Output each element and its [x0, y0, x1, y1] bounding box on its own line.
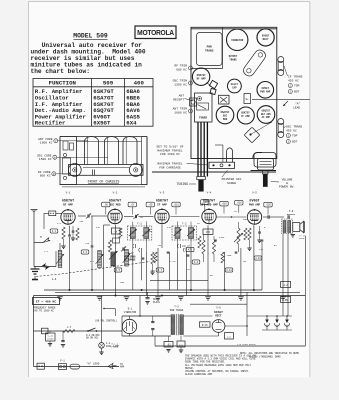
- ground lug box (top view): [244, 94, 251, 104]
- coupling caps near V4: [267, 215, 269, 218]
- capacitor: [68, 234, 71, 236]
- svg-text:.02: .02: [186, 268, 191, 271]
- osc coil L-3: [125, 250, 129, 267]
- chassis lip line (front view): [77, 141, 142, 143]
- svg-text:BOT: BOT: [294, 91, 300, 94]
- svg-text:1600 KC: 1600 KC: [174, 111, 187, 114]
- wire: [91, 216, 93, 246]
- filter electrolytic C-24C: [286, 316, 288, 320]
- tube complement table: [33, 79, 153, 127]
- oscillator grid box: [112, 228, 121, 234]
- ground bus: [34, 295, 306, 297]
- IF frequency note box: [33, 298, 60, 305]
- grid trimmer C-2: [87, 214, 89, 217]
- capacitor C-7 label box: [128, 202, 136, 207]
- svg-text:TOP: TOP: [292, 135, 298, 138]
- svg-text:6X4: 6X4: [126, 120, 137, 127]
- svg-text:PWR AMP: PWR AMP: [260, 90, 271, 93]
- capacitor: [235, 251, 238, 253]
- wire: [91, 248, 93, 290]
- svg-text:R-2: R-2: [90, 260, 95, 263]
- ground: [178, 297, 184, 300]
- on-off switch wire: [34, 330, 123, 332]
- wire: [115, 225, 117, 296]
- wire ant box to V1 grid: [44, 212, 49, 214]
- det audio tube 6SQ7GT (top view): [257, 106, 275, 124]
- primary top wire: [122, 315, 171, 317]
- wire: [185, 252, 187, 296]
- oscillator cathode box: [113, 238, 120, 243]
- antenna connector arrow: [43, 238, 50, 243]
- svg-text:.020: .020: [265, 204, 271, 207]
- svg-text:47K: 47K: [167, 226, 172, 229]
- pointer spring: [227, 148, 233, 162]
- resistor: [244, 228, 247, 240]
- resistor: [108, 240, 111, 252]
- front chassis outline: [60, 136, 147, 138]
- antenna coil form: [85, 137, 99, 165]
- capacitor: [261, 239, 264, 241]
- svg-text:AF AMP: AF AMP: [262, 116, 271, 119]
- svg-text:.05: .05: [79, 220, 84, 223]
- svg-text:TUNING: TUNING: [177, 182, 189, 186]
- ground: [238, 297, 244, 300]
- svg-text:CAP: CAP: [232, 87, 237, 90]
- junction: [224, 289, 226, 291]
- svg-text:2.2: 2.2: [283, 284, 288, 287]
- capacitor C-9 label box: [146, 202, 154, 207]
- svg-text:FRONT OF CHASSIS: FRONT OF CHASSIS: [88, 180, 120, 184]
- svg-text:455 KC: 455 KC: [286, 129, 297, 132]
- svg-text:.018: .018: [236, 202, 242, 205]
- resistor: [198, 236, 201, 248]
- antenna coil L-1: [58, 251, 62, 268]
- svg-text:T-1: T-1: [137, 223, 142, 226]
- svg-text:.09: .09: [148, 203, 153, 206]
- svg-text:IF AMP: IF AMP: [157, 204, 167, 207]
- rf coil form: [123, 137, 137, 165]
- buffer caps: [151, 321, 154, 323]
- capacitor: [214, 239, 217, 241]
- antenna receptacle (top view): [190, 98, 197, 106]
- svg-text:4.3: 4.3: [83, 251, 88, 254]
- svg-text:PWR AMP: PWR AMP: [249, 204, 261, 207]
- junction: [141, 289, 143, 291]
- svg-text:PLATE: PLATE: [153, 301, 161, 304]
- filter electrolytic C-24B: [276, 316, 278, 320]
- V5 cathode resistor: [248, 228, 251, 240]
- wire: [207, 225, 209, 295]
- antenna jack M-1: [33, 243, 35, 267]
- svg-text:OSC CORE: OSC CORE: [37, 154, 52, 157]
- svg-text:IF AMP: IF AMP: [241, 115, 250, 118]
- svg-text:IF = 455 KC: IF = 455 KC: [36, 300, 57, 304]
- RF amp tube 6SK7GT (top view): [192, 68, 209, 85]
- resistor R-5 label: [114, 268, 122, 272]
- speaker: [293, 223, 300, 232]
- B+ feed wire: [55, 291, 300, 293]
- bottom return bus: [155, 345, 305, 347]
- svg-text:R-15: R-15: [202, 324, 208, 327]
- svg-text:AVC: AVC: [151, 269, 156, 272]
- capacitor: [142, 257, 145, 259]
- svg-text:F-1: F-1: [60, 359, 65, 362]
- svg-text:470K: 470K: [219, 236, 225, 239]
- junction: [253, 289, 255, 291]
- ground: [155, 297, 161, 300]
- volume control wires: [282, 234, 284, 317]
- dial lamp I-1: [101, 296, 103, 343]
- svg-text:600 KC: 600 KC: [176, 68, 187, 71]
- svg-text:4.1: 4.1: [52, 230, 57, 233]
- svg-text:6X5GT: 6X5GT: [93, 120, 111, 127]
- svg-text:C-1: C-1: [57, 222, 62, 225]
- svg-text:.07: .07: [130, 203, 135, 206]
- antenna ground: [34, 267, 36, 270]
- svg-text:VOLUME: VOLUME: [282, 179, 293, 182]
- svg-text:PWR: PWR: [207, 46, 212, 49]
- filter electrolytic C-24A: [266, 316, 268, 320]
- svg-text:C21: C21: [227, 335, 232, 338]
- svg-text:2.2M: 2.2M: [170, 260, 176, 263]
- oscillator coil form: [105, 137, 119, 165]
- battery plug: [108, 363, 117, 368]
- suppressor box on switch line: [42, 328, 49, 334]
- cap C-21 under rectifier: [225, 333, 234, 339]
- osc transformer can (right edge of chassis): [278, 119, 284, 125]
- junction: [190, 289, 192, 291]
- antenna: [33, 210, 35, 214]
- A lead exit: [252, 99, 310, 101]
- padder caps under T-2: [177, 244, 180, 248]
- page frame border: [28, 2, 30, 378]
- oscillator coil L-3 feedback: [111, 252, 115, 266]
- ground: [280, 297, 286, 300]
- svg-text:ALL VOLTAGES MEASURED WITH 100: ALL VOLTAGES MEASURED WITH 1000 OHM PER …: [185, 364, 252, 367]
- front chassis left plate: [60, 137, 77, 185]
- svg-text:RF TRIM: RF TRIM: [174, 65, 187, 68]
- svg-text:RF AMP: RF AMP: [197, 77, 207, 80]
- tuning core arrow: [96, 254, 104, 264]
- ammeter connector: [37, 363, 45, 369]
- wire: [240, 248, 242, 296]
- electrolytic cap (top view): [228, 79, 242, 93]
- svg-text:POINTER ADJ: POINTER ADJ: [222, 178, 242, 181]
- svg-text:.05: .05: [157, 244, 162, 247]
- Motorola logo: [135, 26, 176, 39]
- detector diode parts under V4: [203, 229, 213, 235]
- tuning core arrow: [56, 254, 64, 264]
- svg-text:MOD: MOD: [223, 118, 228, 121]
- V5 cathode bypass: [258, 231, 261, 233]
- wire: [190, 252, 192, 290]
- svg-text:.01: .01: [166, 344, 171, 347]
- svg-text:VIBRATOR: VIBRATOR: [124, 311, 137, 314]
- wire: [132, 252, 134, 290]
- power amp tube 6V6GT (top view): [257, 82, 274, 99]
- tuner unit (top view): [195, 93, 213, 122]
- oscillator tube 6SA7GT (top view): [216, 106, 234, 124]
- spark plate C-25: [49, 331, 51, 333]
- resistor R-3 label: [81, 250, 89, 254]
- svg-text:“A”: “A”: [295, 102, 301, 106]
- wire: [141, 252, 143, 280]
- svg-text:250: 250: [120, 281, 125, 284]
- svg-text:RECT: RECT: [215, 315, 222, 318]
- resistor: [119, 228, 122, 238]
- svg-text:RF CORE: RF CORE: [38, 171, 51, 174]
- svg-text:100: 100: [148, 230, 153, 233]
- svg-text:SPARK: SPARK: [47, 337, 54, 340]
- svg-text:220: 220: [85, 242, 90, 245]
- svg-text:.01: .01: [233, 210, 238, 213]
- svg-text:.011: .011: [173, 203, 179, 206]
- volume-power switch shaft: [253, 153, 262, 159]
- svg-text:MAXIMUM TRAVEL: MAXIMUM TRAVEL: [157, 163, 182, 166]
- junction: [161, 294, 163, 296]
- svg-text:.016: .016: [221, 203, 227, 206]
- svg-text:270: 270: [259, 248, 264, 251]
- spark plate capacitor: [146, 297, 150, 299]
- svg-text:22K: 22K: [107, 245, 112, 248]
- junction: [114, 294, 116, 296]
- vibrator (top view): [227, 29, 248, 50]
- filter choke wire: [247, 315, 292, 317]
- IF amp tube 6SK7GT (top view): [237, 107, 254, 124]
- padder caps under T-1: [132, 244, 135, 248]
- coupling wire V4-V5: [217, 216, 247, 218]
- svg-text:OSC TRANS: OSC TRANS: [286, 126, 302, 129]
- chassis top view outline: [191, 27, 277, 158]
- ground: [57, 297, 63, 300]
- resistor: [154, 252, 157, 263]
- svg-text:V-5: V-5: [252, 191, 257, 194]
- svg-text:&: &: [286, 182, 288, 185]
- capacitor C-11 label box: [172, 202, 180, 207]
- svg-text:the chart below:: the chart below:: [31, 68, 90, 75]
- svg-text:ANT: ANT: [179, 95, 185, 98]
- svg-text:400: 400: [134, 80, 145, 87]
- svg-text:L-1: L-1: [52, 278, 57, 281]
- svg-text:ANT CORE: ANT CORE: [38, 138, 53, 141]
- svg-text:SW ON VOL: SW ON VOL: [86, 337, 99, 340]
- svg-text:MAXIMUM TRAVEL: MAXIMUM TRAVEL: [157, 149, 182, 152]
- wire: [69, 237, 71, 290]
- wire: [145, 252, 147, 296]
- svg-text:LEAD: LEAD: [293, 106, 300, 109]
- dial cable bundle: [197, 122, 199, 177]
- osc section wire: [103, 225, 105, 290]
- svg-text:OUTPUT: OUTPUT: [287, 213, 296, 216]
- tuning shaft: [197, 177, 206, 180]
- junction: [91, 289, 93, 291]
- AVC bus (dashed): [36, 262, 150, 277]
- resistor: [76, 228, 79, 240]
- output transformer (top view): [242, 48, 268, 78]
- svg-text:.05: .05: [283, 299, 288, 302]
- capacitor C-14 label box: [201, 200, 209, 205]
- svg-text:K=1000 (THOUSAND) OHMS: K=1000 (THOUSAND) OHMS: [249, 355, 281, 358]
- svg-text:600 KC: 600 KC: [40, 175, 51, 178]
- svg-text:.005: .005: [226, 254, 232, 257]
- svg-text:4.7: 4.7: [158, 269, 163, 272]
- svg-text:C15: C15: [206, 231, 211, 234]
- svg-text:ANT TRIM: ANT TRIM: [173, 108, 188, 111]
- svg-text:RECT: RECT: [263, 38, 270, 41]
- svg-text:PWR TRANS: PWR TRANS: [170, 309, 184, 312]
- svg-text:.5M: .5M: [242, 260, 247, 263]
- svg-text:V-2: V-2: [113, 191, 118, 194]
- vibrator feed jog: [104, 308, 115, 310]
- svg-text:V-3: V-3: [160, 191, 165, 194]
- fuse holder: [70, 364, 80, 369]
- svg-text:TRANS: TRANS: [229, 58, 237, 61]
- svg-text:OSC MOD: OSC MOD: [109, 204, 121, 207]
- wire: [161, 225, 163, 248]
- svg-text:“A” LEAD: “A” LEAD: [87, 362, 100, 366]
- wire: [253, 225, 255, 290]
- antenna lead-in wire: [33, 214, 35, 243]
- oscillator padder trimmer: [122, 247, 124, 250]
- socket box (top view): [219, 95, 230, 104]
- svg-text:.05: .05: [104, 203, 109, 206]
- volume control R-14: [281, 282, 291, 288]
- svg-text:FOR 1500 KC: FOR 1500 KC: [160, 153, 180, 156]
- heater feed to primary: [139, 296, 141, 317]
- bypass cap 3: [61, 340, 64, 342]
- power transformer (top view): [197, 33, 223, 66]
- svg-text:.01: .01: [139, 216, 144, 219]
- svg-text:4.13: 4.13: [255, 257, 261, 260]
- wire: [261, 242, 263, 290]
- svg-text:V-6: V-6: [216, 307, 221, 310]
- svg-text:KC RANGE: KC RANGE: [124, 259, 136, 262]
- svg-text:ALIGN CARRIAGE ARM.: ALIGN CARRIAGE ARM.: [185, 373, 214, 376]
- secondary wires: [183, 315, 212, 317]
- capacitor C-5 label box: [102, 202, 110, 207]
- center tap dropper: [180, 336, 182, 342]
- svg-text:Rectifier: Rectifier: [35, 120, 66, 127]
- junction: [68, 289, 70, 291]
- svg-text:G+: G+: [246, 98, 250, 101]
- screen feed wire: [190, 303, 247, 305]
- resistor R-7 label: [156, 268, 164, 272]
- ground: [205, 297, 211, 300]
- wire: [224, 252, 226, 290]
- IF transformer T-2: [172, 226, 197, 240]
- svg-text:SET TO 9/16″ OF: SET TO 9/16″ OF: [156, 145, 183, 149]
- capacitor: [167, 251, 170, 253]
- svg-text:POWER SW.: POWER SW.: [279, 186, 295, 189]
- A lead line: [34, 366, 120, 368]
- coupling wire V3-V4: [171, 216, 200, 218]
- capacitor: [187, 254, 190, 256]
- svg-text:10M: 10M: [243, 218, 248, 221]
- tuning core arrow: [123, 253, 131, 263]
- resistor R-11 label: [225, 268, 233, 272]
- svg-text:(ON VOL CONTROL): (ON VOL CONTROL): [95, 320, 117, 323]
- svg-text:540 TO 1600 KC: 540 TO 1600 KC: [33, 309, 55, 312]
- buffer capacitor C-23: [164, 342, 173, 348]
- svg-text:L-5 SPKR FIELD: L-5 SPKR FIELD: [237, 343, 256, 346]
- svg-text:L-7: L-7: [67, 326, 72, 329]
- svg-text:.014: .014: [202, 201, 208, 204]
- B+ bus: [44, 289, 262, 291]
- svg-text:OSC TRIM: OSC TRIM: [173, 80, 188, 83]
- rectifier tube 6X5GT (top view): [257, 29, 274, 46]
- svg-text:V-1: V-1: [66, 191, 71, 194]
- capacitor C-16 label box: [220, 201, 228, 206]
- svg-text:VIBRATOR: VIBRATOR: [231, 39, 244, 42]
- svg-text:L-1: L-1: [44, 250, 49, 253]
- svg-text:TUNER: TUNER: [199, 117, 207, 120]
- B+ takeoff: [225, 325, 247, 327]
- wire: [177, 252, 179, 290]
- svg-text:T-2: T-2: [182, 223, 187, 226]
- svg-text:BOT: BOT: [292, 141, 298, 144]
- svg-text:4.11: 4.11: [226, 269, 232, 272]
- svg-text:SPKR: SPKR: [299, 237, 305, 240]
- IF transformer can (right edge of chassis): [278, 57, 284, 63]
- svg-text:AMM: AMM: [120, 366, 125, 369]
- V1 cathode network: [62, 227, 65, 239]
- svg-text:RF AMP: RF AMP: [63, 204, 73, 207]
- svg-text:MODEL 509: MODEL 509: [73, 32, 108, 39]
- svg-text:SCREW: SCREW: [227, 182, 236, 185]
- svg-text:FUNCTION: FUNCTION: [49, 80, 77, 87]
- wire: [157, 248, 159, 296]
- svg-text:47K: 47K: [96, 226, 101, 229]
- carriage bar (front view): [69, 165, 144, 176]
- svg-text:V-4: V-4: [207, 191, 212, 194]
- svg-text:IF TRANS: IF TRANS: [288, 76, 303, 79]
- svg-text:TRANS: TRANS: [205, 50, 214, 53]
- bus wire y280: [150, 279, 208, 281]
- chassis bottom right notch: [254, 153, 276, 168]
- trimmer C-6: [134, 215, 136, 218]
- filter ground wire: [262, 329, 292, 331]
- svg-text:455 KC: 455 KC: [288, 79, 299, 82]
- hash choke L-7: [63, 330, 75, 333]
- svg-text:DIAL LAMP: DIAL LAMP: [106, 345, 119, 348]
- svg-text:1500 KC: 1500 KC: [174, 83, 187, 86]
- IF transformer T-1: [127, 226, 152, 240]
- svg-text:MOTOROLA: MOTOROLA: [137, 29, 174, 37]
- speaker field wire: [304, 236, 306, 346]
- svg-text:FOR CARRIAGE: FOR CARRIAGE: [159, 166, 181, 169]
- ground: [97, 297, 103, 300]
- svg-text:47K: 47K: [188, 248, 193, 251]
- rf coil L-2: [98, 251, 102, 268]
- resistor R-13 label: [254, 256, 262, 260]
- resistor R-1 label: [50, 229, 58, 233]
- svg-text:1600 KC: 1600 KC: [40, 142, 53, 145]
- V3 cathode network: [151, 252, 154, 264]
- svg-text:1500 KC: 1500 KC: [39, 158, 52, 161]
- svg-text:TOP: TOP: [294, 85, 300, 88]
- svg-text:509: 509: [103, 80, 114, 87]
- resistor: [221, 252, 224, 263]
- dial carriage: [209, 162, 235, 168]
- dial rail line: [152, 171, 276, 173]
- antenna series capacitor C-1: [49, 211, 56, 216]
- wire: [69, 226, 71, 235]
- capacitor: [91, 245, 94, 247]
- volume pot between V4-V5: [237, 228, 240, 244]
- svg-text:4.9: 4.9: [194, 261, 199, 264]
- capacitor C-18 label box: [235, 200, 243, 205]
- svg-text:RECEPT: RECEPT: [173, 98, 184, 101]
